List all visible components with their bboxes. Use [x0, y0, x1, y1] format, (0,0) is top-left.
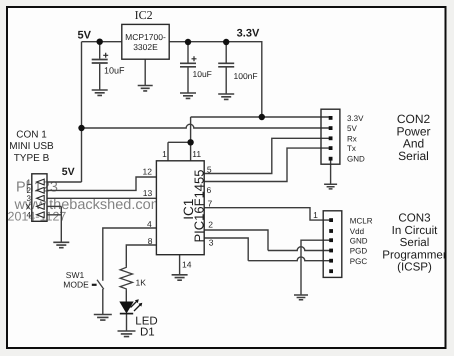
wire USB pin X stub: [47, 205, 61, 207]
connector CON3 name label: [382, 212, 447, 274]
wire 5V to CON2 (hops over 3.3V drop): [82, 124, 331, 128]
svg-text:10uF: 10uF: [104, 66, 125, 76]
wire IC1 pin 4 to SW1: [103, 228, 157, 281]
wire CON2 GND to ground: [330, 159, 332, 184]
svg-text:3.3V: 3.3V: [347, 114, 364, 123]
svg-text:5V: 5V: [347, 124, 357, 133]
wire SW1 to ground: [102, 289, 104, 314]
svg-text:CON 1: CON 1: [16, 129, 47, 140]
wire pin1/pin11 tee: [168, 142, 191, 161]
ground (C1): [92, 90, 108, 95]
wire capacitor C3 leads: [225, 42, 227, 94]
svg-text:Serial: Serial: [398, 149, 429, 163]
svg-text:4: 4: [147, 219, 152, 229]
svg-text:11: 11: [192, 149, 201, 159]
ground (SW1): [94, 315, 112, 321]
svg-text:6: 6: [207, 185, 212, 195]
svg-text:GND: GND: [350, 236, 368, 245]
svg-text:3.3V: 3.3V: [237, 28, 260, 40]
svg-text:2: 2: [208, 219, 213, 229]
ground (CON3): [294, 295, 308, 300]
wire IC1 pin 5 to CON2 Rx: [204, 138, 330, 173]
svg-text:Rx: Rx: [347, 134, 357, 143]
pin labels CON1: [26, 178, 32, 220]
LED D1: [120, 299, 143, 313]
wire IC1 pin 14 ground lead: [179, 255, 181, 275]
svg-text:D1: D1: [140, 326, 155, 338]
wire 5V rail left: [82, 41, 122, 43]
svg-text:7: 7: [208, 199, 213, 209]
wire 3.3V horizontal to CON2 and drop to IC1: [191, 117, 330, 161]
node 5V line junction: [78, 125, 84, 131]
svg-text:Tx: Tx: [347, 144, 356, 153]
svg-text:10uF: 10uF: [193, 69, 212, 79]
svg-text:3: 3: [209, 238, 214, 248]
svg-text:PIC16F1455: PIC16F1455: [192, 170, 207, 243]
ground (IC1 pin 14): [172, 275, 188, 280]
svg-text:12: 12: [143, 166, 153, 176]
node 3.3V line junction: [259, 114, 265, 120]
connector CON1 mini USB: [32, 174, 47, 222]
connector CON3: [323, 211, 342, 278]
svg-text:14: 14: [182, 260, 192, 270]
svg-text:Serial: Serial: [400, 236, 430, 249]
svg-text:5: 5: [207, 164, 212, 174]
switch SW1: [92, 280, 104, 290]
svg-text:CON3: CON3: [398, 212, 430, 225]
ground (C2): [180, 93, 196, 98]
ground (USB): [53, 242, 69, 247]
svg-text:1: 1: [162, 149, 167, 159]
capacitor C3 100nF: [218, 63, 257, 81]
wire 3.3V rail right of regulator: [169, 42, 262, 117]
capacitor C1 10uF: [92, 53, 125, 76]
svg-text:5V: 5V: [78, 30, 92, 42]
svg-text:Programmer: Programmer: [382, 248, 447, 261]
ground (LED): [118, 331, 136, 337]
svg-text:TYPE B: TYPE B: [14, 153, 50, 164]
wire resistor to LED: [125, 291, 127, 302]
node 5V rail / C1 junction: [97, 39, 103, 45]
pin labels CON3: [350, 216, 373, 266]
pin labels CON2: [347, 114, 365, 164]
wire capacitor C1 leads: [99, 42, 101, 90]
svg-text:GND: GND: [347, 155, 365, 164]
svg-text:Vdd: Vdd: [350, 227, 364, 236]
svg-text:3302E: 3302E: [133, 42, 158, 52]
wire IC1 pin 8 to resistor: [126, 245, 156, 266]
svg-text:5V: 5V: [62, 166, 75, 178]
wire USB pin 2 to IC1 pin 12: [47, 177, 156, 190]
svg-text:1: 1: [313, 210, 318, 220]
node 3.3V rail / C2 junction: [185, 39, 191, 45]
wire IC1 pin 7 to CON3 MCLR: [204, 208, 330, 220]
op IC1 PIC16F1455: [156, 161, 206, 255]
LED D1 label: [135, 315, 157, 338]
wire USB pin 5 to ground: [47, 206, 61, 241]
svg-text:MODE: MODE: [63, 280, 89, 290]
svg-text:PGD: PGD: [350, 247, 368, 256]
svg-text:8: 8: [148, 236, 153, 246]
wire 5V vertical from rail to USB pin 1: [47, 42, 82, 182]
wire IC1 pin 2 to CON3 PGD (hops over gnd): [204, 230, 330, 251]
wire IC1 pin 3 to CON3 PGC (hops over gnd): [204, 238, 330, 261]
wire LED to ground: [126, 314, 128, 331]
node 3.3V rail / C3 junction: [223, 39, 229, 45]
wire regulator ground lead: [144, 59, 146, 85]
svg-text:MCP1700-: MCP1700-: [125, 32, 166, 42]
ground (C3): [218, 94, 234, 99]
svg-text:1K: 1K: [136, 277, 147, 287]
ground (CON2): [324, 184, 337, 189]
regulator IC2 MCP1700: [122, 24, 169, 59]
connector CON1 name label: [9, 129, 54, 163]
ground (regulator): [138, 86, 153, 91]
svg-text:SW1: SW1: [66, 270, 85, 280]
svg-text:(ICSP): (ICSP): [397, 261, 432, 274]
svg-text:PGC: PGC: [350, 257, 368, 266]
capacitor C2 10uF: [180, 56, 212, 79]
node IC1 pin11 junction: [187, 139, 193, 145]
svg-text:In Circuit: In Circuit: [392, 224, 439, 237]
resistor R1 1K: [120, 266, 146, 291]
svg-text:IC2: IC2: [135, 8, 153, 22]
connector CON2 name label: [396, 112, 430, 163]
wire USB pin 3 to IC1 pin 13: [47, 197, 156, 199]
watermark: [8, 180, 163, 224]
svg-text:100nF: 100nF: [234, 71, 258, 81]
switch SW1 label: [63, 270, 89, 290]
wire IC1 pin 6 to CON2 Tx: [204, 148, 330, 181]
svg-text:4: 4: [27, 211, 32, 220]
svg-text:13: 13: [143, 188, 153, 198]
wire capacitor C2 leads: [187, 42, 189, 93]
svg-text:MCLR: MCLR: [350, 216, 373, 225]
connector CON2: [321, 109, 340, 164]
svg-text:MINI USB: MINI USB: [9, 141, 54, 152]
wire CON3 GND to ground: [301, 240, 330, 294]
